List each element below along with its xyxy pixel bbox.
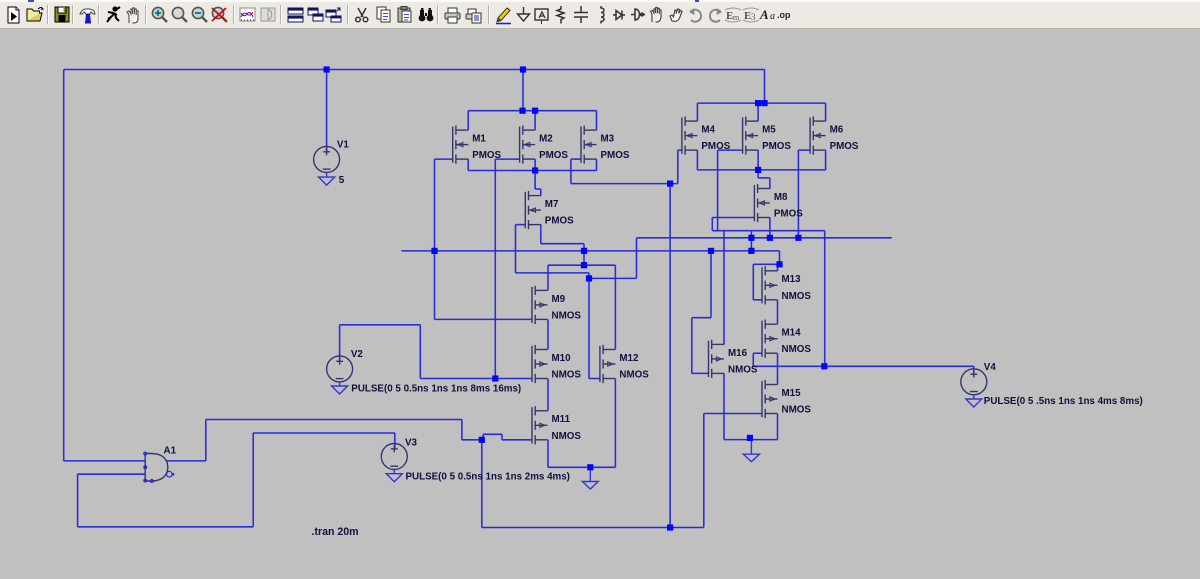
svg-text:PULSE(0 5 .5ns 1ns 1ns 4ms 8ms: PULSE(0 5 .5ns 1ns 1ns 4ms 8ms): [984, 396, 1143, 407]
svg-text:M2: M2: [539, 134, 553, 145]
svg-text:M9: M9: [552, 294, 566, 305]
svg-text:M10: M10: [552, 353, 572, 364]
svg-text:M7: M7: [545, 199, 559, 210]
svg-text:PMOS: PMOS: [539, 150, 568, 161]
svg-text:A: A: [759, 7, 769, 22]
svg-text:M5: M5: [762, 125, 776, 136]
svg-text:NMOS: NMOS: [782, 405, 812, 416]
svg-text:V4: V4: [984, 362, 997, 373]
svg-text:NMOS: NMOS: [619, 370, 649, 381]
svg-text:V2: V2: [351, 349, 364, 360]
svg-text:M4: M4: [701, 125, 715, 136]
svg-text:M6: M6: [830, 125, 844, 136]
svg-text:NMOS: NMOS: [782, 344, 812, 355]
svg-text:PULSE(0 5 0.5ns 1ns 1ns 2ms 4m: PULSE(0 5 0.5ns 1ns 1ns 2ms 4ms): [406, 472, 570, 483]
svg-text:PMOS: PMOS: [774, 209, 803, 220]
svg-text:PMOS: PMOS: [701, 141, 730, 152]
svg-text:M14: M14: [782, 328, 802, 339]
svg-text:PMOS: PMOS: [830, 141, 859, 152]
svg-text:NMOS: NMOS: [782, 291, 812, 302]
svg-text:M13: M13: [782, 274, 802, 285]
svg-text:NMOS: NMOS: [552, 370, 582, 381]
svg-text:m: m: [733, 13, 740, 22]
svg-text:.op: .op: [777, 10, 791, 20]
svg-text:a: a: [770, 11, 775, 22]
svg-text:A1: A1: [164, 445, 177, 456]
svg-text:5: 5: [339, 175, 345, 186]
svg-text:NMOS: NMOS: [728, 364, 758, 375]
svg-text:M8: M8: [774, 192, 788, 203]
svg-text:M16: M16: [728, 348, 748, 359]
svg-text:M11: M11: [552, 414, 571, 425]
svg-text:PMOS: PMOS: [762, 141, 791, 152]
svg-text:PMOS: PMOS: [601, 150, 630, 161]
svg-text:M12: M12: [619, 353, 639, 364]
svg-text:3: 3: [751, 12, 756, 22]
svg-text:NMOS: NMOS: [552, 431, 582, 442]
svg-text:.tran 20m: .tran 20m: [312, 526, 359, 538]
svg-text:PMOS: PMOS: [472, 150, 501, 161]
svg-text:M1: M1: [472, 134, 486, 145]
svg-text:V1: V1: [337, 140, 350, 151]
svg-text:PULSE(0 5 0.5ns 1ns 1ns 8ms 16: PULSE(0 5 0.5ns 1ns 1ns 8ms 16ms): [351, 383, 521, 394]
svg-text:NMOS: NMOS: [552, 310, 582, 321]
svg-text:M3: M3: [601, 134, 615, 145]
svg-text:V3: V3: [405, 438, 418, 449]
svg-text:PMOS: PMOS: [545, 216, 574, 227]
svg-text:M15: M15: [782, 388, 802, 399]
